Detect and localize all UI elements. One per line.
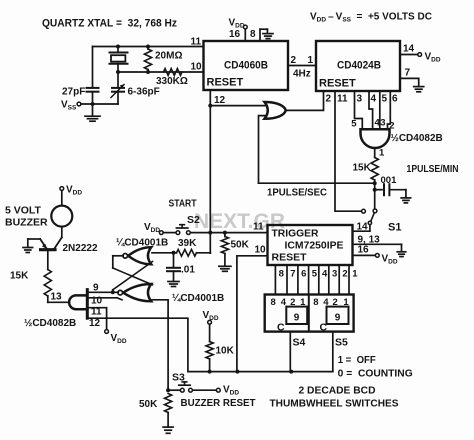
node NOR2 output junction — [111, 290, 115, 295]
box 9 left — [286, 307, 307, 324]
IC U5 ICM7250IPE box — [268, 225, 353, 265]
svg-text:1: 1 — [352, 269, 358, 280]
svg-text:10: 10 — [91, 296, 103, 307]
wire ICM pins 9-13 — [353, 243, 402, 245]
ground pin7 — [400, 78, 424, 91]
pin 2 label — [291, 55, 297, 66]
node 39K-cap junction — [172, 251, 176, 255]
label 1/2CD4082B left — [24, 318, 76, 329]
and-gate U4 1/2CD4082B — [361, 129, 390, 148]
wire emitter — [28, 238, 40, 240]
svg-text:¼CD4001B: ¼CD4001B — [116, 238, 168, 249]
svg-text:1 = OFF: 1 = OFF — [338, 355, 376, 366]
capacitor 27pF — [87, 47, 99, 105]
pin 11 label 4024 — [337, 94, 348, 105]
pin 5 label 4024 — [382, 94, 388, 105]
svg-text:10: 10 — [255, 245, 267, 256]
pin 11 label ICM — [253, 222, 264, 233]
and-gate U8 1/2CD4082B left — [69, 290, 87, 319]
svg-text:1: 1 — [308, 55, 314, 66]
wire 4024 pin6 — [388, 91, 391, 129]
wire 1PULSE/SEC line — [259, 182, 375, 184]
svg-text:¼CD4001B: ¼CD4001B — [172, 293, 224, 304]
wire NOR2 output to AND pin9 — [88, 291, 118, 293]
pin 10 label ICM — [255, 245, 267, 256]
svg-text:RESET: RESET — [319, 78, 356, 90]
svg-text:39K: 39K — [178, 238, 197, 249]
label 20M — [155, 51, 182, 62]
svg-text:5: 5 — [312, 269, 318, 280]
label S2 — [187, 214, 200, 226]
label 1PULSE/SEC — [267, 188, 327, 199]
wire xtal bottom net — [118, 71, 204, 73]
svg-text:12: 12 — [89, 318, 101, 329]
ground ICM 9-13 — [397, 244, 406, 256]
node xtal-top junction — [116, 45, 150, 49]
resistor 20M — [144, 47, 151, 73]
resistor 50K bottom — [165, 394, 172, 427]
svg-text:CD4024B: CD4024B — [337, 60, 381, 72]
svg-text:5 VOLT: 5 VOLT — [5, 205, 42, 217]
svg-text:½CD4082B: ½CD4082B — [391, 133, 443, 144]
svg-text:2: 2 — [342, 269, 347, 280]
resistor 15K right — [371, 158, 378, 181]
svg-text:50K: 50K — [139, 399, 158, 410]
svg-text:330KΩ: 330KΩ — [156, 76, 188, 87]
label C left — [277, 322, 285, 334]
wire cross-couple D2 — [113, 262, 153, 290]
pin 1 label 4082 — [379, 148, 385, 159]
power VDD ICM pin16 — [353, 254, 398, 266]
pin 13 label 4082 — [51, 292, 63, 303]
pin 9 label 4082 — [93, 282, 99, 293]
svg-text:RESET: RESET — [272, 252, 308, 264]
wire ICM pin10 reset — [237, 256, 268, 372]
pin 6 label 4024 — [392, 94, 398, 105]
svg-text:VDD – VSS = +5 VOLTS DC: VDD – VSS = +5 VOLTS DC — [310, 12, 432, 24]
svg-text:16: 16 — [358, 245, 370, 256]
switch S3 — [168, 382, 192, 392]
svg-text:7: 7 — [405, 68, 411, 79]
svg-text:11: 11 — [253, 222, 264, 233]
label 1/4CD4001B bottom — [172, 293, 224, 304]
labels 8421 right — [313, 297, 349, 308]
pin 11 label 4082 — [91, 307, 102, 318]
svg-text:14: 14 — [357, 222, 369, 233]
wire AND pin10 — [88, 298, 122, 300]
wire 4024 pin11 1PULSE/SEC — [335, 91, 362, 211]
svg-text:C: C — [277, 322, 285, 334]
ground emitter — [23, 239, 33, 253]
wire OR output to 4024 pin2 — [286, 91, 324, 110]
wire S2 rail to ICM pin11 — [190, 232, 267, 234]
pin 1 label — [308, 55, 314, 66]
label 15K left — [10, 271, 29, 282]
svg-text:½CD4082B: ½CD4082B — [24, 318, 76, 329]
pin 16 label — [229, 29, 241, 40]
label 50K top — [231, 240, 250, 251]
label 1PULSE/MIN — [407, 164, 459, 175]
svg-text:4Hz: 4Hz — [293, 69, 311, 80]
switch S2 START — [176, 225, 190, 235]
wire xtal top net — [93, 46, 204, 48]
svg-text:8: 8 — [279, 269, 284, 280]
svg-text:START: START — [169, 199, 197, 210]
svg-text:S2: S2 — [187, 214, 200, 226]
svg-text:S5: S5 — [335, 337, 348, 349]
label 39K — [178, 238, 197, 249]
svg-text:13: 13 — [51, 292, 63, 303]
ground 50K bottom — [163, 427, 173, 433]
svg-text:7: 7 — [290, 269, 295, 280]
capacitor .001 — [375, 184, 406, 195]
svg-text:6-36pF: 6-36pF — [128, 87, 160, 98]
node xtal-bottom junction — [116, 70, 150, 74]
svg-text:1PULSE/MIN: 1PULSE/MIN — [407, 164, 459, 175]
wire 4024 pin4 — [369, 91, 373, 129]
wire 4024 pin5 — [379, 91, 381, 129]
ground xtal net — [85, 104, 100, 121]
label 15K right — [353, 163, 372, 174]
label 27pF — [62, 87, 85, 98]
svg-text:ICM7250IPE: ICM7250IPE — [285, 240, 344, 252]
svg-text:4: 4 — [371, 94, 377, 105]
wire S5 common — [332, 332, 334, 372]
wire latch to S3 — [152, 300, 168, 390]
wire 4060 pin12 down — [209, 90, 211, 253]
svg-text:BUZZER: BUZZER — [5, 217, 48, 229]
pin 2 label 4024 bottom — [326, 94, 332, 105]
gate input labels 5 4 3 2 — [351, 118, 394, 132]
transistor Q1 2N2222 — [40, 237, 62, 249]
label START — [169, 199, 197, 210]
label 50K bottom — [139, 399, 158, 410]
pin 7 label — [405, 68, 411, 79]
label 4Hz — [293, 69, 311, 80]
power VDD pin14 — [400, 52, 441, 64]
svg-text:11: 11 — [337, 94, 348, 105]
svg-text:6: 6 — [301, 269, 306, 280]
pin 12 label 4082 — [89, 318, 101, 329]
ground .01 — [168, 282, 179, 287]
label 10K — [216, 346, 235, 357]
svg-text:001: 001 — [381, 175, 398, 186]
wire AND pin11 to VDD — [88, 308, 126, 346]
node S3 junction — [166, 388, 170, 392]
wire OR bottom input — [259, 116, 267, 184]
svg-text:BUZZER RESET: BUZZER RESET — [181, 397, 257, 409]
svg-text:TRIGGER: TRIGGER — [272, 228, 319, 240]
nor-gate U7 1/4CD4001B bottom — [118, 284, 151, 301]
svg-text:9: 9 — [335, 313, 341, 324]
pin 10 label 4082 — [91, 296, 103, 307]
svg-text:14: 14 — [403, 44, 415, 55]
svg-text:5: 5 — [382, 94, 388, 105]
power VDD 10K — [203, 310, 219, 342]
pin 9,13 label ICM — [358, 235, 381, 246]
label THUMBWHEEL SWITCHES — [270, 398, 399, 410]
svg-text:2N2222: 2N2222 — [63, 243, 98, 254]
label S1 — [388, 222, 401, 234]
svg-text:3: 3 — [380, 118, 385, 129]
resistor 50K top — [221, 233, 228, 267]
ground 50K top — [219, 266, 231, 271]
or-gate U3 1/4CD4001B reset-OR — [265, 102, 286, 119]
label 5 VOLT BUZZER — [5, 205, 48, 229]
ground .001 — [401, 190, 411, 203]
pin 14 label ICM — [357, 222, 369, 233]
pin 4 label 4024 — [371, 94, 377, 105]
svg-text:11: 11 — [91, 307, 102, 318]
label BUZZER RESET — [181, 397, 257, 409]
svg-text:10K: 10K — [216, 346, 235, 357]
svg-text:3: 3 — [357, 94, 363, 105]
wire 4060 pin2 to 4024 pin1 — [288, 65, 316, 67]
wire reset rail — [88, 318, 332, 371]
svg-text:20MΩ: 20MΩ — [155, 51, 182, 62]
node pin12 branch — [208, 104, 212, 108]
power VDD pin16 — [229, 18, 248, 42]
svg-text:2 DECADE BCD: 2 DECADE BCD — [299, 385, 376, 397]
label 1/2CD4082B right — [391, 133, 443, 144]
resistor 39K — [177, 249, 197, 256]
svg-text:2: 2 — [389, 120, 394, 131]
capacitor .01 — [167, 253, 180, 281]
svg-text:10: 10 — [191, 62, 203, 73]
svg-text:3: 3 — [332, 269, 337, 280]
svg-text:8: 8 — [250, 29, 256, 40]
wire S4 common — [289, 332, 291, 372]
nor-gate U6 1/4CD4001B top — [123, 247, 151, 264]
svg-text:CD4060B: CD4060B — [224, 60, 268, 72]
svg-text:5: 5 — [351, 118, 357, 129]
label 330K — [156, 76, 188, 87]
label 2N2222 — [63, 243, 98, 254]
resistor 10K — [206, 342, 213, 372]
power VDD S2 — [144, 222, 176, 235]
svg-text:S3: S3 — [172, 372, 185, 384]
wire AND output pin13 — [48, 301, 69, 303]
label S3 — [172, 372, 185, 384]
labels 8421 left — [271, 297, 307, 308]
pin 8 label — [250, 29, 256, 40]
svg-text:C: C — [320, 322, 328, 334]
ground pin8 — [260, 29, 273, 41]
crystal Y1 32768Hz — [110, 47, 128, 88]
svg-text:S1: S1 — [388, 222, 401, 234]
wire 4024 pin3 — [355, 91, 363, 129]
wire ICM pins 8-1 to switches — [275, 265, 349, 295]
svg-text:.01: .01 — [181, 264, 195, 275]
svg-text:9: 9 — [93, 282, 99, 293]
svg-text:1: 1 — [379, 148, 385, 159]
pin 16 label ICM — [358, 245, 370, 256]
svg-text:QUARTZ XTAL = 32, 768 Hz: QUARTZ XTAL = 32, 768 Hz — [42, 18, 177, 30]
svg-text:50K: 50K — [231, 240, 250, 251]
label .01 — [181, 264, 195, 275]
wire cross-couple D1 — [113, 268, 153, 285]
pin 10 label — [191, 62, 203, 73]
label QUARTZ XTAL = 32,768 Hz — [42, 18, 177, 30]
svg-text:THUMBWHEEL SWITCHES: THUMBWHEEL SWITCHES — [270, 398, 399, 410]
node VSS junction — [91, 102, 95, 106]
svg-text:8: 8 — [271, 297, 276, 308]
svg-text:9: 9 — [294, 313, 300, 324]
label 001 — [381, 175, 398, 186]
wire 15K to S1 — [374, 180, 376, 209]
label 1/4CD4001B top — [116, 238, 168, 249]
power VDD buzzer — [60, 185, 82, 197]
pin 3 label 4024 — [357, 94, 363, 105]
resistor 330K — [164, 69, 183, 76]
capacitor 6-36pF trimmer — [111, 85, 124, 105]
wire S1 pole to ICM pin14 — [353, 225, 370, 232]
pin 14 label — [403, 44, 415, 55]
buzzer BZ1 — [51, 190, 72, 237]
wire AND output pin1 — [374, 148, 376, 158]
label 6-36pF — [128, 87, 160, 98]
wire pin12 to OR input — [210, 105, 267, 107]
label 2 DECADE BCD — [299, 385, 376, 397]
label S5 — [335, 337, 348, 349]
svg-text:6: 6 — [392, 94, 398, 105]
svg-text:RESET: RESET — [207, 77, 244, 89]
label C right — [320, 322, 328, 334]
node reset rail junctions — [208, 370, 294, 374]
IC U1 CD4060B box — [204, 41, 289, 90]
label 1 = OFF — [338, 355, 376, 366]
IC U2 CD4024B box — [316, 41, 400, 91]
wire NOR1 output — [113, 256, 123, 268]
pin 11 label — [191, 37, 202, 48]
resistor 15K left — [44, 251, 51, 302]
svg-text:4: 4 — [322, 269, 328, 280]
switch S4 S5 thumbwheel box — [265, 295, 354, 332]
svg-text:15K: 15K — [10, 271, 29, 282]
svg-text:12: 12 — [214, 95, 226, 106]
wire latch set input — [152, 252, 177, 254]
svg-text:2: 2 — [326, 94, 332, 105]
svg-text:S4: S4 — [293, 337, 306, 349]
wire 39K right elbow — [197, 252, 211, 254]
node 1PULSE-MIN — [373, 181, 377, 192]
svg-text:27pF: 27pF — [62, 87, 85, 98]
wire S3 to VDD — [192, 385, 239, 397]
svg-text:15K: 15K — [353, 163, 372, 174]
box 9 right — [327, 307, 349, 324]
label 0 = COUNTING — [338, 369, 413, 380]
svg-text:2: 2 — [291, 55, 297, 66]
pin 12 label — [214, 95, 226, 106]
switch S1 — [362, 209, 377, 225]
svg-text:8: 8 — [313, 297, 318, 308]
terminal VSS — [61, 100, 118, 112]
pin labels 8 7 6 5 4 3 2 1 — [279, 269, 359, 280]
node S2 rail junctions — [208, 231, 227, 235]
svg-text:1PULSE/SEC: 1PULSE/SEC — [267, 188, 327, 199]
label S4 — [293, 337, 306, 349]
svg-text:16: 16 — [229, 29, 241, 40]
label VDD-VSS = +5 VOLTS DC — [310, 12, 432, 24]
svg-text:0 = COUNTING: 0 = COUNTING — [338, 369, 413, 380]
